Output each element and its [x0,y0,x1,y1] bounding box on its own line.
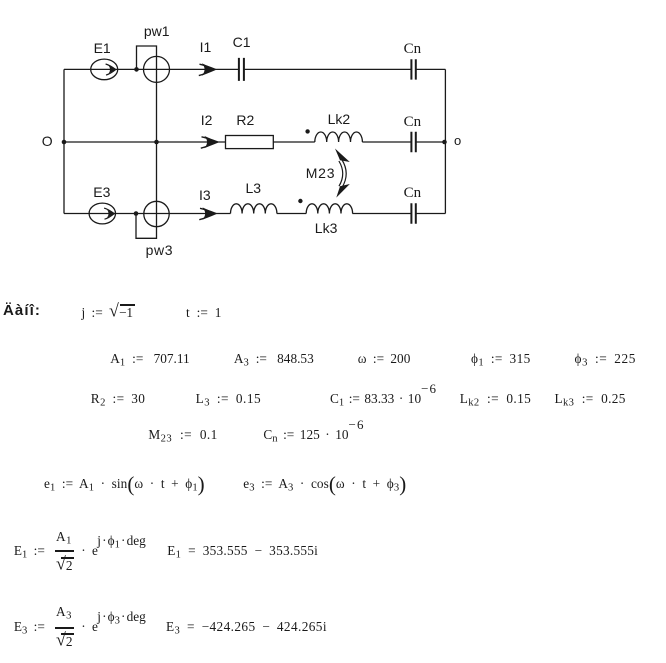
eq E1 result [167,544,318,557]
capacitor Cn top [411,59,415,79]
wattmeter pw3 bracket wire [136,214,157,239]
eq t := 1 [186,306,221,319]
label node O [42,134,53,148]
radical bar sqrt2 E1 [61,557,74,558]
polarity dot Lk3 [298,199,302,203]
eq Cn := 125e-6 [263,428,363,441]
node junction dot middle [154,140,159,145]
eq A3 := 848.53 [234,352,314,365]
inductor Lk3 [306,204,352,214]
label I2 [201,113,213,127]
label E3 [93,185,110,199]
label Lk3 [315,221,338,235]
node junction dot o right [442,140,447,145]
node junction dot top [134,67,139,72]
eq phi3 := 225 [575,352,637,365]
wire top row [64,68,445,70]
wire left bus vertical (node O) [63,69,65,213]
mutual inductance arrow M23 [339,160,346,188]
eq j := sqrt(-1) [82,306,135,319]
eq e1 := A1 sin(wt+phi1) [44,477,205,490]
wire bottom row [64,213,445,215]
label pw1 [144,24,170,38]
source E3 [89,203,115,224]
radical bar sqrt2 E3 [61,633,74,634]
radical bar of sqrt(-1) [120,304,136,305]
exponent j phi1 deg [97,534,146,547]
eq R2 := 30 [91,392,146,405]
node junction dot O [62,140,67,145]
eq E3 result [166,620,327,633]
resistor R2 [226,136,274,149]
dot e base E1 [81,544,98,557]
arrow I1 [200,64,216,69]
wattmeter pw1 bracket wire [137,46,157,69]
wire middle row [64,141,445,143]
fraction bar E3 [55,627,74,629]
arrow I3 [199,208,216,219]
inductor L3 [231,204,277,214]
eq L3 := 0.15 [196,392,262,405]
label Cn middle [404,115,422,130]
given label Dano [3,303,41,318]
fraction numerator A3 [56,605,72,618]
eq omega := 200 [358,352,411,365]
fraction bar E1 [55,550,74,552]
eq C1 := 83.33e-6 [330,392,436,405]
eq M23 := 0.1 [148,428,217,441]
label I3 [199,188,211,202]
wattmeter pw3 [144,201,169,226]
node junction dot bottom [134,211,139,216]
label Cn bottom [404,186,422,201]
eq Lk3 := 0.25 [555,392,626,405]
fraction denominator sqrt2 E1 [56,559,73,572]
capacitor Cn bottom [411,203,415,223]
eq Lk2 := 0.15 [460,392,531,405]
eq E3 definition [14,620,45,633]
exponent j phi3 deg [97,610,146,623]
wire right bus vertical (node o) [444,69,446,213]
arrow I2 [201,137,218,148]
source E1 [91,59,118,80]
label Cn top [404,42,422,57]
label R2 [236,113,254,127]
eq phi1 := 315 [471,352,531,365]
eq e3 := A3 cos(wt+phi3) [243,477,406,490]
polarity dot Lk2 [305,129,309,133]
fraction numerator A1 [56,530,72,543]
fraction denominator sqrt2 E3 [56,635,73,648]
eq E1 definition [14,544,45,557]
label E1 [94,41,111,55]
wire pw vertical bus [156,56,158,226]
label C1 [233,35,251,49]
label Lk2 [328,112,351,126]
wattmeter pw1 [144,56,170,82]
dot e base E3 [81,620,98,633]
eq A1 := 707.11 [110,352,189,365]
label L3 [246,181,262,195]
label node o [454,134,461,147]
label I1 [200,40,212,54]
label pw3 [146,243,173,257]
capacitor Cn middle [411,132,415,152]
inductor Lk2 [315,132,363,142]
label M23 [306,166,336,180]
capacitor C1 [239,58,244,81]
